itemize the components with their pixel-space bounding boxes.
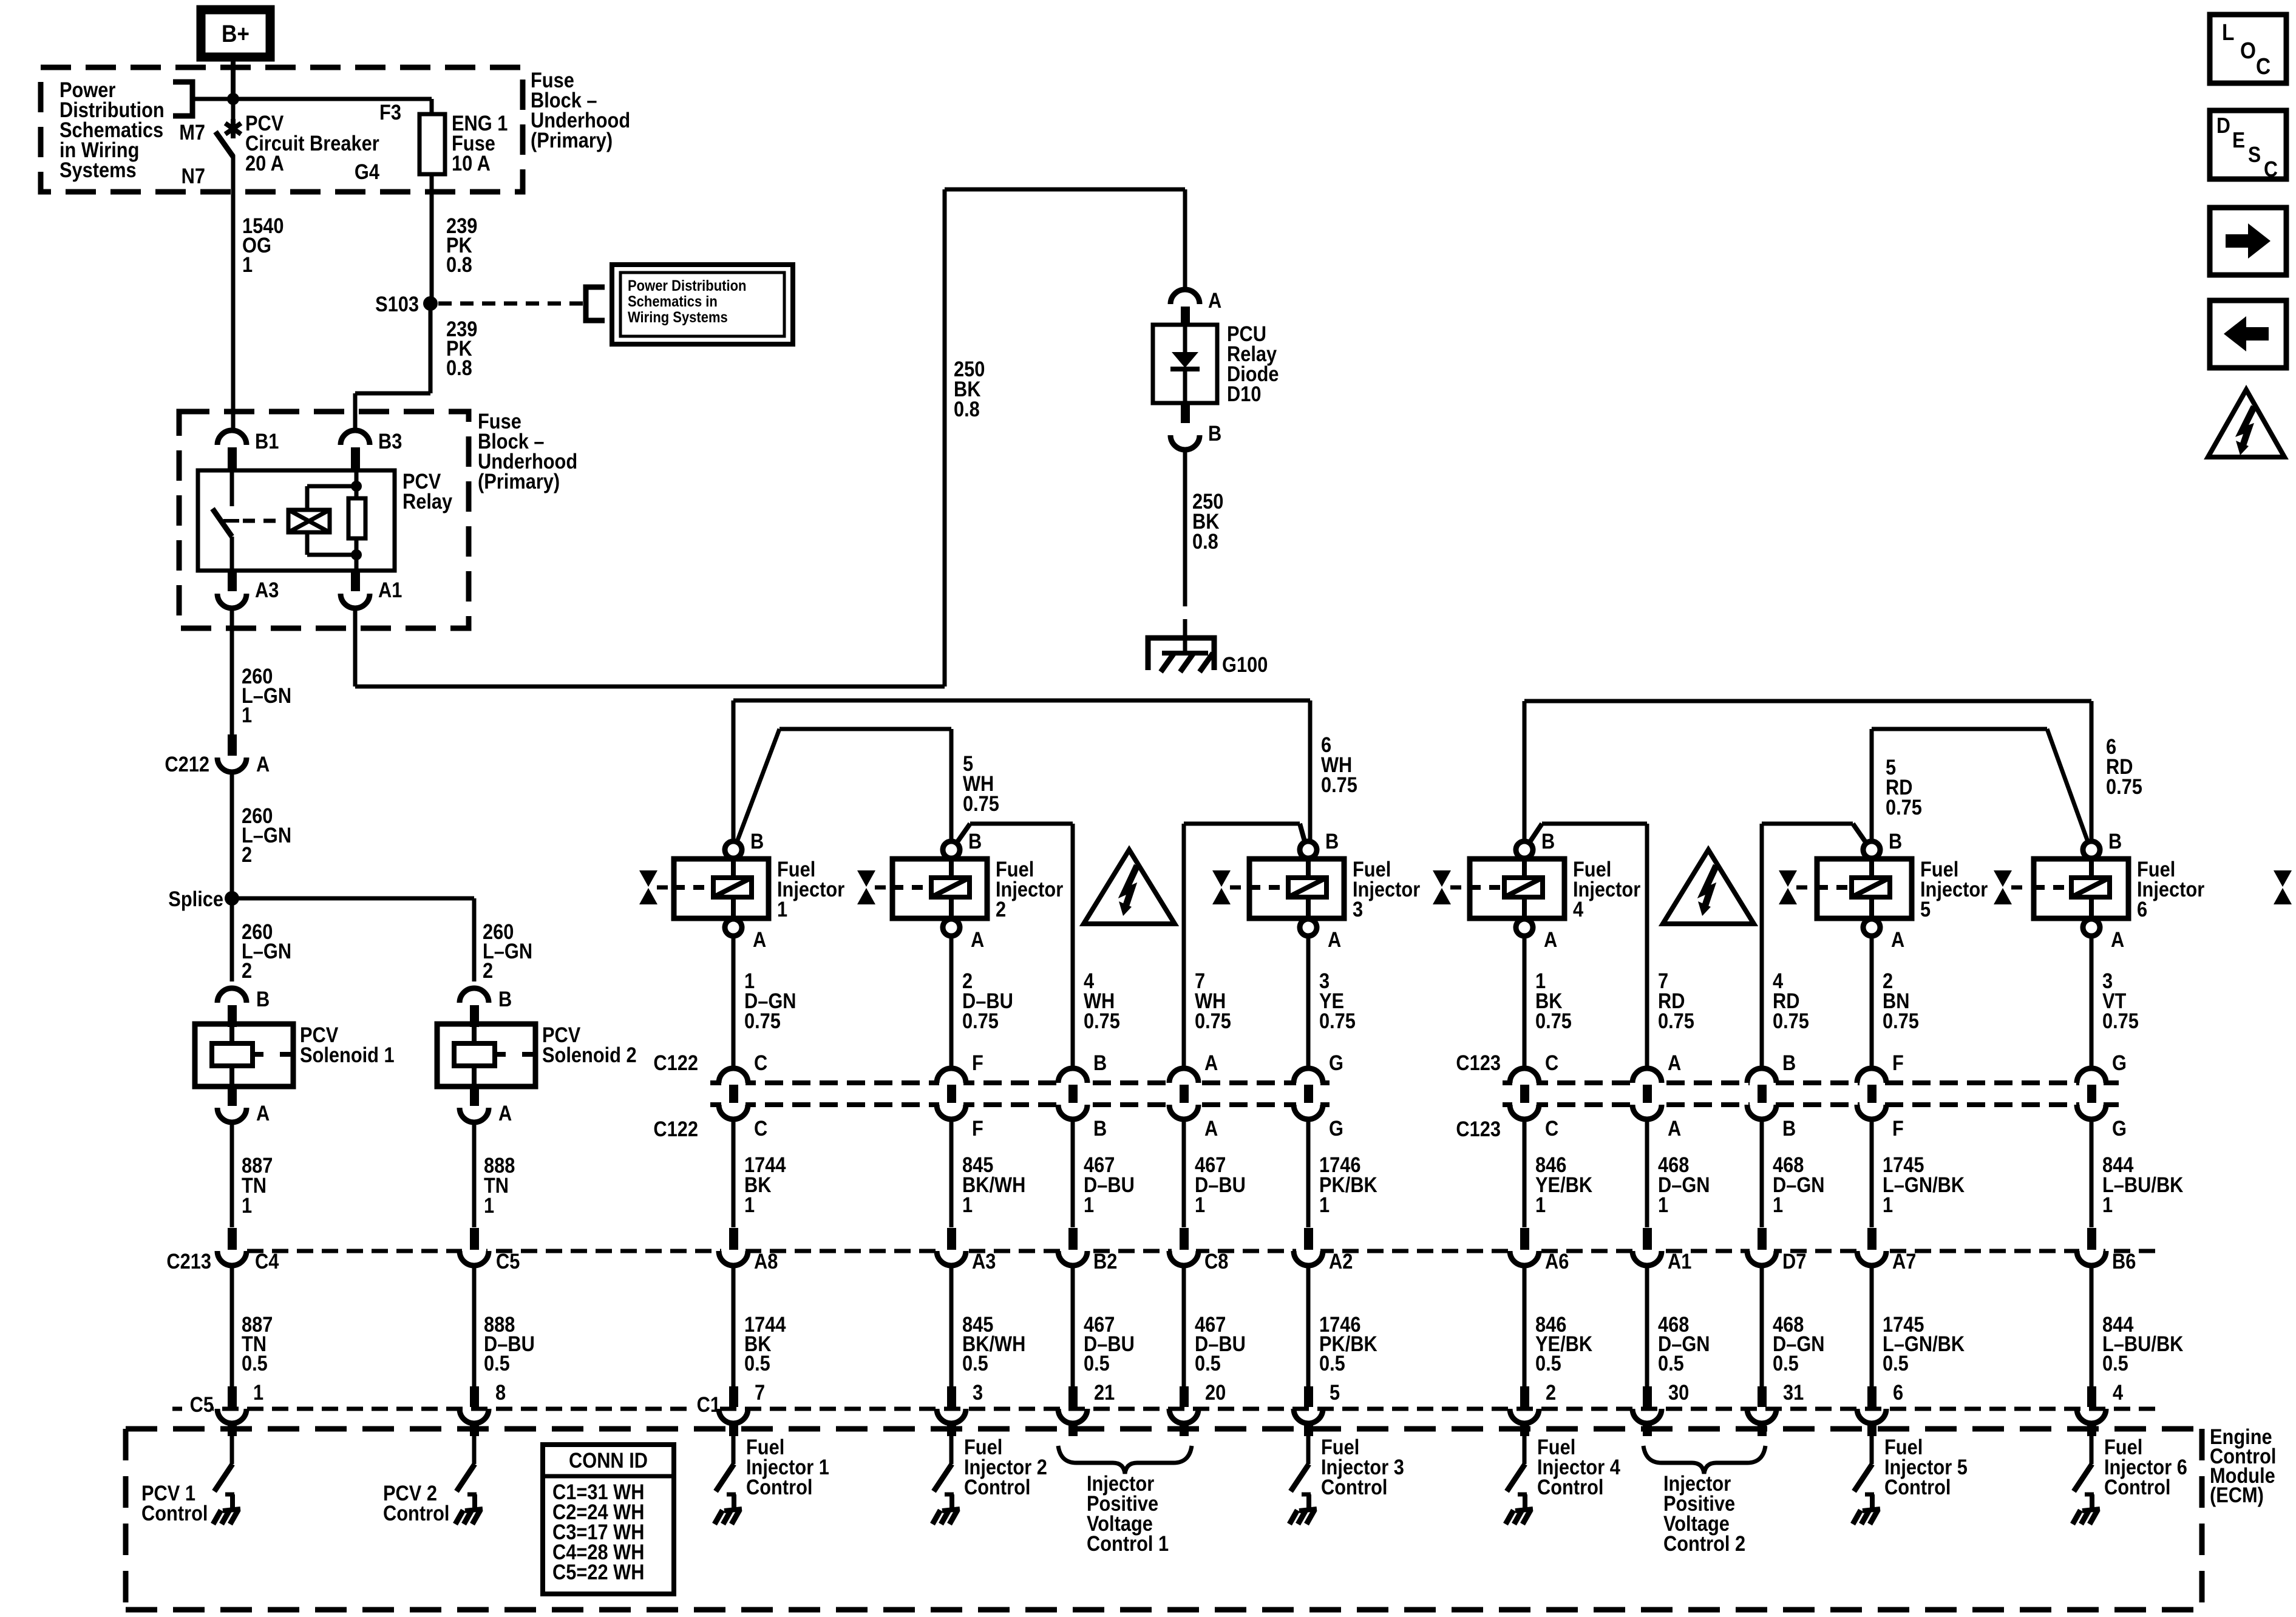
relay resistor bbox=[355, 486, 359, 555]
wire C213 to C5 row col 1 bbox=[230, 1265, 234, 1386]
svg-text:A2: A2 bbox=[1329, 1249, 1353, 1273]
ECM harness connector pin C8 bbox=[1172, 1246, 1196, 1256]
wire to ECM connector col A1 bbox=[1645, 1119, 1649, 1227]
svg-text:2: 2 bbox=[242, 958, 252, 982]
svg-text:F: F bbox=[972, 1051, 983, 1074]
svg-text:2: 2 bbox=[483, 958, 493, 982]
svg-text:6: 6 bbox=[2137, 897, 2147, 921]
dashed connector row C5/C1 (ECM) bbox=[172, 1407, 2155, 1411]
fuse block underhood dashed box (PCV relay) bbox=[179, 412, 469, 628]
in-line connector C213 column 2 bbox=[462, 1246, 486, 1256]
svg-text:4: 4 bbox=[2113, 1380, 2124, 1404]
svg-text:B1: B1 bbox=[255, 429, 279, 453]
svg-text:0.75: 0.75 bbox=[744, 1009, 781, 1032]
svg-text:F: F bbox=[1892, 1051, 1904, 1074]
svg-text:0.75: 0.75 bbox=[1886, 795, 1922, 819]
bus 6 RD 0.75 (injectors 4-6) bbox=[1524, 699, 2091, 703]
svg-text:Schematics in: Schematics in bbox=[628, 293, 718, 310]
svg-text:1: 1 bbox=[1883, 1193, 1893, 1216]
svg-text:1: 1 bbox=[242, 703, 252, 727]
svg-text:O: O bbox=[2240, 38, 2256, 63]
svg-text:0.8: 0.8 bbox=[1192, 529, 1218, 553]
svg-text:A3: A3 bbox=[255, 578, 279, 602]
ECM harness connector pin A6 bbox=[1512, 1246, 1537, 1256]
svg-text:1: 1 bbox=[242, 253, 253, 276]
svg-text:0.5: 0.5 bbox=[744, 1351, 770, 1375]
wire to ECM connector col A2 bbox=[1306, 1119, 1311, 1227]
svg-text:B: B bbox=[498, 987, 512, 1011]
svg-text:1: 1 bbox=[962, 1193, 973, 1216]
connector B at PCV solenoid 1 bbox=[217, 988, 246, 1003]
connector A at PCV solenoid 2 bbox=[470, 1086, 479, 1106]
svg-text:A3: A3 bbox=[972, 1249, 996, 1273]
svg-text:10 A: 10 A bbox=[452, 151, 491, 175]
circuit breaker PCV 20A (M7/N7) bbox=[231, 99, 236, 121]
svg-text:A6: A6 bbox=[1545, 1249, 1569, 1273]
svg-text:C: C bbox=[2264, 157, 2278, 181]
connector B3 bbox=[341, 430, 370, 445]
svg-text:0.5: 0.5 bbox=[962, 1351, 988, 1375]
svg-text:D10: D10 bbox=[1227, 382, 1261, 405]
connector A at PCV solenoid 1 bbox=[228, 1086, 237, 1106]
ECM harness connector pin B2 bbox=[1061, 1246, 1085, 1256]
svg-text:0.75: 0.75 bbox=[1195, 1009, 1231, 1032]
svg-text:Solenoid 2: Solenoid 2 bbox=[542, 1043, 637, 1066]
fuse F3/G4 ENG 1 10A bbox=[419, 114, 445, 174]
svg-text:L: L bbox=[2222, 19, 2234, 45]
svg-text:C: C bbox=[1545, 1051, 1558, 1074]
PCV solenoid 1 bbox=[195, 1024, 293, 1086]
wire C212 to splice bbox=[230, 771, 234, 898]
svg-text:C1: C1 bbox=[697, 1392, 721, 1416]
svg-text:0.75: 0.75 bbox=[1319, 1009, 1356, 1032]
wire diode to G100 bbox=[1183, 449, 1187, 606]
svg-text:B: B bbox=[750, 829, 764, 853]
svg-text:B: B bbox=[1782, 1051, 1796, 1074]
svg-text:Control: Control bbox=[1321, 1475, 1387, 1499]
svg-text:A1: A1 bbox=[1668, 1249, 1691, 1273]
svg-text:G: G bbox=[1329, 1051, 1343, 1074]
connector pair pin A bbox=[1635, 1077, 1659, 1110]
svg-text:B: B bbox=[1325, 829, 1339, 853]
wire above C122/C123 col A8 bbox=[732, 936, 736, 1069]
svg-text:5: 5 bbox=[1920, 897, 1931, 921]
svg-text:(ECM): (ECM) bbox=[2210, 1483, 2264, 1507]
svg-text:0.5: 0.5 bbox=[2102, 1351, 2128, 1375]
high voltage warning triangle 2 bbox=[1663, 850, 1754, 924]
wire splice to PCV solenoid 1 bbox=[230, 898, 234, 981]
svg-text:G100: G100 bbox=[1222, 653, 1268, 676]
svg-text:C: C bbox=[754, 1051, 767, 1074]
svg-text:20: 20 bbox=[1205, 1380, 1226, 1404]
wire above C122/C123 col A3 bbox=[949, 936, 954, 1069]
high voltage warning triangle 1 bbox=[1084, 850, 1175, 924]
ECM harness connector pin A7 bbox=[1860, 1246, 1884, 1256]
ECM harness connector pin A8 bbox=[721, 1246, 746, 1256]
svg-text:A8: A8 bbox=[754, 1249, 778, 1273]
svg-text:A: A bbox=[1891, 927, 1904, 951]
svg-text:0.5: 0.5 bbox=[1883, 1351, 1909, 1375]
svg-text:0.75: 0.75 bbox=[962, 1009, 999, 1032]
bus 5 WH 0.75 (injectors 1-2) bbox=[779, 727, 951, 731]
svg-text:0.75: 0.75 bbox=[2106, 775, 2142, 798]
svg-text:1: 1 bbox=[1658, 1193, 1668, 1216]
svg-text:Systems: Systems bbox=[59, 158, 137, 181]
LOC legend icon bbox=[2210, 15, 2286, 83]
svg-text:A: A bbox=[753, 927, 766, 951]
svg-text:C: C bbox=[2256, 53, 2271, 79]
fuel injector 4 bbox=[1470, 859, 1564, 918]
svg-text:M7: M7 bbox=[179, 120, 205, 144]
svg-text:Power Distribution: Power Distribution bbox=[628, 277, 746, 294]
dashed connector row C213/ECM x-connector bbox=[172, 1249, 2155, 1253]
in-line connector C213 column 1 bbox=[220, 1246, 244, 1256]
ECM harness connector pin A1 bbox=[1635, 1246, 1659, 1256]
svg-text:C212: C212 bbox=[165, 752, 209, 776]
svg-text:E: E bbox=[2232, 128, 2245, 152]
svg-text:8: 8 bbox=[495, 1380, 506, 1404]
svg-text:1: 1 bbox=[253, 1380, 263, 1404]
svg-text:C123: C123 bbox=[1456, 1051, 1501, 1074]
in-line connector C212 pin A bbox=[228, 734, 237, 756]
connector pair pin C bbox=[721, 1077, 746, 1110]
back arrow icon bbox=[2210, 300, 2286, 368]
svg-text:A: A bbox=[2111, 927, 2124, 951]
svg-text:1: 1 bbox=[1319, 1193, 1330, 1216]
bracket to power distribution reference box bbox=[586, 287, 605, 320]
fuel injector 4 control switch and ground bbox=[1523, 1436, 1527, 1464]
ground G100 bbox=[1148, 638, 1214, 670]
svg-text:0.5: 0.5 bbox=[1658, 1351, 1684, 1375]
svg-text:C5: C5 bbox=[496, 1249, 520, 1273]
wire breaker to B1 bbox=[231, 155, 236, 431]
svg-text:2: 2 bbox=[1546, 1380, 1556, 1404]
fuel injector 2 bbox=[892, 859, 987, 918]
svg-text:C: C bbox=[1545, 1116, 1558, 1140]
svg-text:Control: Control bbox=[964, 1475, 1030, 1499]
connector A at PCU relay diode bbox=[1170, 290, 1200, 304]
fuse block underhood (primary) dashed box top-left bbox=[41, 67, 523, 192]
svg-text:0.75: 0.75 bbox=[1535, 1009, 1572, 1032]
svg-text:0.75: 0.75 bbox=[2102, 1009, 2139, 1032]
svg-text:A: A bbox=[1668, 1116, 1681, 1140]
bracket to power distribution schematics bbox=[173, 82, 192, 116]
forward arrow icon bbox=[2210, 208, 2286, 275]
svg-text:0.5: 0.5 bbox=[1084, 1351, 1110, 1375]
wire above C122/C123 col A1 bbox=[1645, 1068, 1649, 1069]
junction dot at B+ feed bbox=[227, 93, 239, 105]
svg-text:Control 2: Control 2 bbox=[1663, 1531, 1745, 1555]
svg-text:C5: C5 bbox=[190, 1392, 214, 1416]
wire to ECM connector col B2 bbox=[1071, 1119, 1075, 1227]
relay coil bbox=[355, 470, 359, 486]
connector pair pin C bbox=[1512, 1077, 1537, 1110]
svg-text:F3: F3 bbox=[379, 100, 401, 124]
svg-text:C5=22 WH: C5=22 WH bbox=[552, 1560, 644, 1584]
wire into ECM PCV 2 bbox=[470, 1422, 479, 1436]
svg-text:A: A bbox=[498, 1101, 512, 1125]
svg-text:A1: A1 bbox=[378, 578, 402, 602]
svg-text:G: G bbox=[2112, 1116, 2127, 1140]
svg-text:0.75: 0.75 bbox=[963, 792, 999, 815]
svg-text:C8: C8 bbox=[1204, 1249, 1228, 1273]
wire solenoid 1 to C213 bbox=[230, 1122, 234, 1227]
svg-text:5: 5 bbox=[1330, 1380, 1340, 1404]
svg-text:1: 1 bbox=[1535, 1193, 1546, 1216]
svg-text:1: 1 bbox=[2102, 1193, 2113, 1216]
connector B at PCV solenoid 2 bbox=[460, 988, 489, 1003]
ground wire from relay A1 bbox=[353, 608, 358, 686]
dashed rows connector C123 bbox=[1503, 1080, 2119, 1085]
svg-text:Control: Control bbox=[746, 1475, 812, 1499]
svg-text:B3: B3 bbox=[378, 429, 402, 453]
svg-text:B+: B+ bbox=[222, 20, 250, 47]
svg-text:0.5: 0.5 bbox=[242, 1351, 268, 1375]
wire above C122/C123 col C8 bbox=[1182, 1068, 1186, 1069]
svg-text:A: A bbox=[256, 1101, 270, 1125]
CONN ID table bbox=[543, 1445, 674, 1594]
fuel injector 5 control switch and ground bbox=[1870, 1436, 1874, 1464]
power distribution schematics in wiring systems reference box bbox=[612, 265, 793, 344]
high voltage warning icon bbox=[2208, 390, 2284, 457]
PCU relay diode D10 bbox=[1153, 325, 1217, 403]
svg-text:A: A bbox=[256, 752, 270, 776]
brace injector positive voltage control 1 bbox=[1058, 1446, 1192, 1474]
connector pair pin F bbox=[939, 1077, 963, 1110]
svg-text:B6: B6 bbox=[2112, 1249, 2136, 1273]
connector B1 bbox=[217, 430, 246, 445]
wire to ECM connector col A7 bbox=[1870, 1119, 1874, 1227]
ECM harness connector pin A3 bbox=[939, 1246, 963, 1256]
svg-text:2: 2 bbox=[242, 842, 252, 866]
nozzle symbol injector 2 bbox=[857, 870, 875, 887]
svg-text:A: A bbox=[1328, 927, 1341, 951]
svg-text:B2: B2 bbox=[1093, 1249, 1117, 1273]
svg-text:A: A bbox=[1208, 288, 1221, 312]
PCV 2 control switch and ground in ECM bbox=[472, 1436, 477, 1464]
svg-text:B: B bbox=[1208, 421, 1221, 445]
svg-text:G: G bbox=[2112, 1051, 2127, 1074]
svg-text:3: 3 bbox=[1353, 897, 1363, 921]
svg-text:B: B bbox=[1093, 1051, 1107, 1074]
connector pair pin G bbox=[2079, 1077, 2104, 1110]
svg-text:7: 7 bbox=[755, 1380, 765, 1404]
fuel injector 5 bbox=[1817, 859, 1912, 918]
wire to ECM connector col D7 bbox=[1760, 1119, 1764, 1227]
svg-text:D7: D7 bbox=[1782, 1249, 1806, 1273]
wire 4 WH to injector 2 bbox=[1071, 824, 1075, 1068]
brace injector positive voltage control 2 bbox=[1643, 1446, 1765, 1474]
svg-text:C122: C122 bbox=[653, 1051, 698, 1074]
svg-text:1: 1 bbox=[1195, 1193, 1205, 1216]
connector pair pin B bbox=[1750, 1077, 1774, 1110]
wire C213 to C5 row col 2 bbox=[472, 1265, 477, 1386]
svg-text:C4: C4 bbox=[255, 1249, 279, 1273]
fuel injector 3 bbox=[1249, 859, 1344, 918]
bus 5 RD 0.75 (injectors 5-6) bbox=[1872, 727, 2047, 731]
svg-text:0.5: 0.5 bbox=[1195, 1351, 1221, 1375]
wire above C122/C123 col A6 bbox=[1523, 936, 1527, 1069]
wire splice to PCV solenoid 2 bbox=[232, 897, 474, 901]
bus 6 WH 0.75 (injectors 1-3) bbox=[733, 699, 1310, 703]
svg-text:0.75: 0.75 bbox=[1883, 1009, 1919, 1032]
svg-text:0.75: 0.75 bbox=[1773, 1009, 1809, 1032]
svg-text:2: 2 bbox=[996, 897, 1006, 921]
svg-text:B: B bbox=[968, 829, 982, 853]
svg-text:1: 1 bbox=[777, 897, 787, 921]
fuel injector 2 control switch and ground bbox=[949, 1436, 954, 1464]
svg-text:F: F bbox=[1892, 1116, 1904, 1140]
svg-text:L–GN/BK: L–GN/BK bbox=[1883, 1173, 1965, 1196]
svg-text:0.5: 0.5 bbox=[1773, 1351, 1799, 1375]
wire above C122/C123 col B2 bbox=[1071, 1068, 1075, 1069]
nozzle symbol injector 1 bbox=[639, 870, 657, 887]
svg-text:B: B bbox=[1782, 1116, 1796, 1140]
svg-text:A: A bbox=[1204, 1051, 1218, 1074]
svg-text:Solenoid 1: Solenoid 1 bbox=[300, 1043, 395, 1066]
nozzle symbol injector 6 right bbox=[2274, 870, 2292, 887]
svg-text:S103: S103 bbox=[375, 292, 419, 316]
wire above C122/C123 col A2 bbox=[1306, 936, 1311, 1069]
nozzle symbol injector 4 bbox=[1433, 870, 1451, 887]
ECM harness connector pin D7 bbox=[1750, 1246, 1774, 1256]
svg-text:Control: Control bbox=[1537, 1475, 1603, 1499]
svg-text:0.8: 0.8 bbox=[446, 253, 472, 276]
wire to ECM connector col B6 bbox=[2090, 1119, 2094, 1227]
svg-text:B: B bbox=[1541, 829, 1555, 853]
fuel injector 3 control switch and ground bbox=[1306, 1436, 1311, 1464]
wire S103 to B3 bbox=[429, 303, 433, 393]
svg-text:4: 4 bbox=[1573, 897, 1584, 921]
connector pair pin A bbox=[1172, 1077, 1196, 1110]
svg-text:(Primary): (Primary) bbox=[478, 469, 560, 493]
svg-text:B: B bbox=[2108, 829, 2122, 853]
ECM harness connector pin B6 bbox=[2079, 1246, 2104, 1256]
svg-text:1: 1 bbox=[242, 1193, 252, 1217]
nozzle symbol injector 6 bbox=[1994, 870, 2012, 887]
svg-text:F: F bbox=[972, 1116, 983, 1140]
svg-text:G: G bbox=[1329, 1116, 1343, 1140]
svg-text:Control: Control bbox=[141, 1501, 208, 1525]
svg-text:Splice: Splice bbox=[168, 887, 223, 910]
fuel injector 6 control switch and ground bbox=[2090, 1436, 2094, 1464]
svg-text:0.75: 0.75 bbox=[1084, 1009, 1120, 1032]
connector A1 bbox=[351, 571, 360, 591]
svg-text:D: D bbox=[2216, 114, 2230, 138]
wire above C122/C123 col B6 bbox=[2090, 936, 2094, 1069]
splice S103 bbox=[423, 296, 438, 311]
connector pair pin F bbox=[1860, 1077, 1884, 1110]
splice junction bbox=[225, 891, 239, 906]
svg-text:0.8: 0.8 bbox=[954, 397, 980, 421]
connector A3 bbox=[228, 571, 237, 591]
PCV relay box bbox=[198, 470, 395, 571]
wire above C122/C123 col D7 bbox=[1760, 1068, 1764, 1069]
engine control module (ECM) dashed box bbox=[126, 1426, 2202, 1432]
svg-text:C: C bbox=[754, 1116, 767, 1140]
nozzle symbol injector 5 bbox=[1779, 870, 1797, 887]
svg-text:30: 30 bbox=[1668, 1380, 1689, 1404]
svg-text:1: 1 bbox=[1773, 1193, 1783, 1216]
svg-text:A7: A7 bbox=[1892, 1249, 1916, 1273]
svg-text:G4: G4 bbox=[355, 160, 380, 183]
svg-text:Wiring Systems: Wiring Systems bbox=[628, 309, 728, 326]
svg-text:3: 3 bbox=[973, 1380, 983, 1404]
svg-text:(Primary): (Primary) bbox=[531, 128, 613, 152]
wire to ECM connector col A6 bbox=[1523, 1119, 1527, 1227]
DESC legend icon bbox=[2210, 110, 2286, 179]
wire B+ down to junction bbox=[231, 57, 236, 99]
svg-text:B: B bbox=[1093, 1116, 1107, 1140]
fuel injector 1 control switch and ground bbox=[732, 1436, 736, 1464]
svg-text:C122: C122 bbox=[653, 1117, 698, 1141]
dashed wire S103 to reference bbox=[438, 302, 584, 306]
nozzle symbol injector 3 bbox=[1212, 870, 1231, 887]
svg-text:B: B bbox=[256, 987, 270, 1011]
svg-text:Relay: Relay bbox=[402, 489, 453, 513]
svg-text:1: 1 bbox=[1084, 1193, 1094, 1216]
svg-text:1: 1 bbox=[484, 1193, 494, 1217]
PCV solenoid 2 bbox=[437, 1024, 535, 1086]
wire 4 RD to injector 5 bbox=[1760, 824, 1764, 1068]
connector pair pin G bbox=[1296, 1077, 1320, 1110]
svg-text:B: B bbox=[1889, 829, 1902, 853]
svg-text:A: A bbox=[1668, 1051, 1681, 1074]
wire to ECM connector col C8 bbox=[1182, 1119, 1186, 1227]
svg-text:L–BU/BK: L–BU/BK bbox=[2102, 1173, 2184, 1196]
svg-text:0.5: 0.5 bbox=[484, 1351, 510, 1375]
dashed rows connector C122 bbox=[710, 1080, 1330, 1085]
svg-text:0.5: 0.5 bbox=[1319, 1351, 1345, 1375]
svg-text:C123: C123 bbox=[1456, 1117, 1501, 1141]
svg-text:CONN ID: CONN ID bbox=[569, 1448, 648, 1472]
fuel injector 6 bbox=[2034, 859, 2128, 918]
svg-text:20 A: 20 A bbox=[245, 151, 284, 175]
svg-text:1: 1 bbox=[744, 1193, 755, 1216]
svg-text:31: 31 bbox=[1783, 1380, 1804, 1404]
svg-text:0.5: 0.5 bbox=[1535, 1351, 1561, 1375]
svg-text:Control 1: Control 1 bbox=[1087, 1531, 1169, 1555]
wire into ECM PCV 1 bbox=[228, 1422, 237, 1436]
svg-text:0.8: 0.8 bbox=[446, 356, 472, 379]
wire to ECM connector col A8 bbox=[732, 1119, 736, 1227]
svg-text:N7: N7 bbox=[182, 164, 205, 188]
relay switch bbox=[230, 470, 234, 506]
B+ power terminal bbox=[201, 10, 270, 57]
wire junction to fuse F3 bbox=[233, 97, 432, 101]
svg-text:0.75: 0.75 bbox=[1321, 773, 1357, 796]
svg-text:Control: Control bbox=[2104, 1475, 2170, 1499]
svg-text:0.75: 0.75 bbox=[1658, 1009, 1694, 1032]
wire 7 RD to injector 4 bbox=[1645, 824, 1649, 1068]
wire above C122/C123 col A7 bbox=[1870, 936, 1874, 1069]
svg-text:Control: Control bbox=[383, 1501, 449, 1525]
PCV 1 control switch and ground in ECM bbox=[230, 1436, 234, 1464]
wire to ECM connector col A3 bbox=[949, 1119, 954, 1227]
wire solenoid 2 to C213 bbox=[472, 1122, 477, 1227]
fuel injector 1 bbox=[674, 859, 769, 918]
svg-text:A: A bbox=[1544, 927, 1557, 951]
svg-text:S: S bbox=[2248, 143, 2261, 167]
svg-text:A: A bbox=[1204, 1116, 1218, 1140]
connector B at diode bbox=[1181, 403, 1190, 423]
svg-text:6: 6 bbox=[1893, 1380, 1903, 1404]
svg-text:A: A bbox=[971, 927, 984, 951]
connector pair pin B bbox=[1061, 1077, 1085, 1110]
ECM harness connector pin A2 bbox=[1296, 1246, 1320, 1256]
svg-text:21: 21 bbox=[1094, 1380, 1115, 1404]
svg-text:Control: Control bbox=[1884, 1475, 1951, 1499]
